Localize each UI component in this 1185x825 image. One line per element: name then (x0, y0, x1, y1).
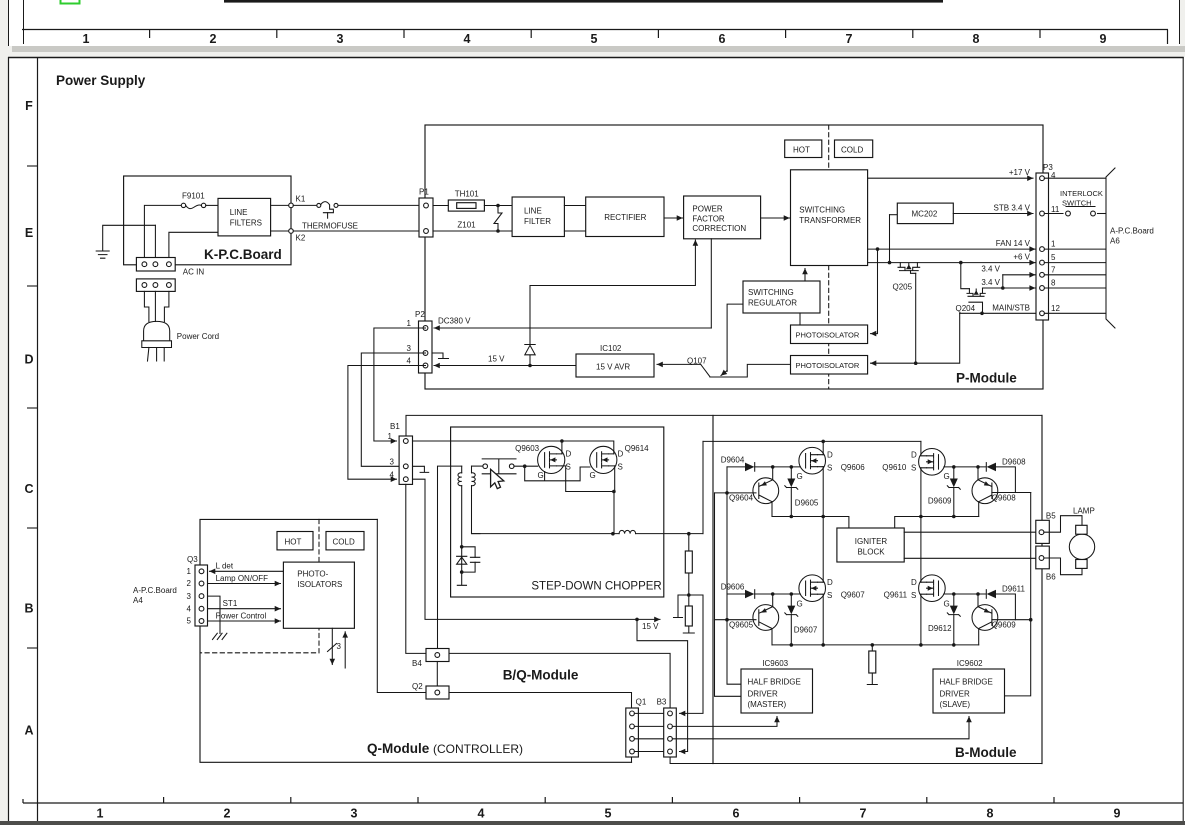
svg-text:Q9604: Q9604 (729, 494, 754, 503)
svg-text:C: C (24, 482, 33, 496)
svg-text:D: D (566, 450, 572, 459)
wire regulator to transformer (arrow up) (804, 269, 806, 282)
svg-text:DRIVER: DRIVER (748, 690, 778, 699)
Q-Module outline (200, 519, 632, 762)
connector AC IN (136, 258, 204, 277)
MOSFET Q9614 (590, 444, 650, 480)
chopper output inductor (472, 530, 704, 535)
svg-text:3: 3 (407, 344, 412, 353)
wire transformer secondary top to switch (472, 465, 483, 467)
svg-text:8: 8 (1051, 279, 1056, 288)
wire Q9603 drain to rail (560, 439, 564, 454)
wire B5 to lamp (1044, 516, 1082, 533)
svg-text:A-P.C.Board: A-P.C.Board (133, 586, 177, 595)
block PHOTOISOLATOR 2 (791, 356, 868, 375)
block LINE FILTER (512, 197, 564, 237)
wire lower-left node rail (772, 643, 979, 647)
svg-text:F: F (25, 99, 33, 113)
svg-text:D: D (827, 451, 833, 460)
block IC9603 HALF BRIDGE DRIVER (MASTER) (741, 659, 813, 713)
svg-text:9: 9 (1100, 32, 1107, 46)
svg-text:1: 1 (97, 807, 104, 821)
wire H-bridge top rail (703, 440, 921, 444)
wire Q9614 source to common riser (611, 466, 616, 536)
svg-text:1: 1 (1051, 240, 1056, 249)
svg-text:Power Supply: Power Supply (56, 73, 146, 88)
svg-text:+6 V: +6 V (1013, 252, 1030, 261)
svg-text:D9605: D9605 (795, 499, 819, 508)
wire ST1 (Q3 pin4) (208, 599, 281, 609)
row letter ticks (27, 166, 38, 648)
svg-text:Q9610: Q9610 (882, 463, 907, 472)
svg-text:IC9603: IC9603 (762, 659, 788, 668)
svg-text:G: G (797, 600, 803, 609)
wire FAN 14V output (868, 239, 1036, 251)
svg-text:8: 8 (987, 807, 994, 821)
bus arrows below photo-isolators (328, 628, 346, 668)
bottom ruler (23, 802, 1183, 804)
connector P2 (407, 310, 432, 373)
box COLD (P-module) (835, 140, 873, 158)
dashed hot/cold separator (Q-module) (201, 519, 319, 652)
svg-text:2: 2 (210, 32, 217, 46)
svg-text:Power Cord: Power Cord (177, 332, 219, 341)
zener D9607 (785, 594, 818, 645)
wire P2 pin4 riser to B1 pin4 (348, 366, 426, 480)
mouse cursor (491, 469, 504, 488)
svg-text:TRANSFORMER: TRANSFORMER (799, 216, 861, 225)
pin numbers P3 (1051, 171, 1060, 313)
svg-text:Q9606: Q9606 (841, 463, 866, 472)
chassis stub on P2 pin3 (432, 353, 449, 359)
svg-text:D9611: D9611 (1002, 585, 1026, 594)
svg-text:L det: L det (216, 562, 234, 571)
svg-text:FILTER: FILTER (524, 217, 551, 226)
wires Q1 to B3 links (634, 713, 667, 751)
svg-text:15 V AVR: 15 V AVR (596, 363, 630, 372)
svg-text:12: 12 (1051, 304, 1060, 313)
svg-text:S: S (566, 463, 571, 472)
previous page strip (8, 0, 1185, 52)
svg-text:4: 4 (187, 604, 192, 613)
svg-text:1: 1 (388, 432, 393, 441)
svg-text:SWITCH: SWITCH (1062, 199, 1092, 208)
connector Q1 (626, 698, 647, 758)
svg-text:Q2: Q2 (412, 682, 423, 691)
wire 15V arrow (Q-module) (635, 618, 660, 631)
svg-text:B/Q-Module: B/Q-Module (503, 668, 579, 683)
svg-text:11: 11 (1051, 205, 1060, 214)
svg-text:(MASTER): (MASTER) (748, 700, 787, 709)
wires P3 pins to A-board bracket (1044, 178, 1105, 313)
svg-text:SWITCHING: SWITCHING (799, 206, 845, 215)
svg-text:7: 7 (860, 807, 867, 821)
wire upper-right node rail to igniter (895, 515, 979, 528)
wire B3 pin2 to master driver (672, 717, 777, 727)
varistor Z101 (457, 204, 502, 233)
connector B1 (388, 422, 413, 484)
svg-text:D9609: D9609 (928, 497, 952, 506)
svg-text:B4: B4 (412, 659, 422, 668)
svg-text:Q9609: Q9609 (992, 621, 1017, 630)
svg-text:A4: A4 (133, 596, 143, 605)
wire B6 to lamp (1044, 558, 1082, 575)
connector P1 (419, 188, 433, 238)
wire B1 pin3 stub termination (413, 466, 429, 472)
svg-text:RECTIFIER: RECTIFIER (604, 213, 646, 222)
wire Q9603 source to common (562, 466, 614, 492)
svg-text:Q-Module (CONTROLLER): Q-Module (CONTROLLER) (367, 741, 523, 756)
block PHOTOISOLATOR 1 (791, 325, 868, 344)
transistor Q107 (687, 304, 791, 377)
wire rail corner into Q9614 drain (562, 441, 614, 454)
zener D9609 (928, 467, 960, 517)
wire K2 to P1 (293, 230, 419, 232)
svg-text:7: 7 (1051, 265, 1056, 274)
wire FAN dot down to photoisolator 1 (871, 249, 878, 334)
transistor Q9608 (mirrored) (972, 467, 1016, 517)
svg-text:B3: B3 (657, 698, 667, 707)
wire B1 pin1 to chopper FET rail (413, 440, 562, 442)
block IGNITER BLOCK (837, 528, 904, 562)
box COLD (Q-module) (326, 532, 364, 550)
dashed hot/cold separator (P-module) (828, 125, 830, 389)
interlock switch (1060, 189, 1103, 216)
svg-text:STEP-DOWN CHOPPER: STEP-DOWN CHOPPER (531, 581, 661, 593)
wire transformer primary top to B4 riser (438, 466, 462, 648)
wire +6V output (868, 215, 1036, 265)
wire STB 3.4V output (953, 204, 1033, 214)
svg-text:D: D (618, 450, 624, 459)
svg-text:HOT: HOT (285, 537, 302, 546)
svg-text:S: S (911, 591, 916, 600)
svg-text:D9606: D9606 (721, 583, 745, 592)
block MC202 (897, 203, 953, 224)
svg-text:1: 1 (83, 32, 90, 46)
wires LINE FILTER to RECTIFIER (564, 206, 585, 232)
svg-text:HOT: HOT (793, 146, 810, 155)
svg-text:3: 3 (351, 807, 358, 821)
svg-text:5: 5 (187, 617, 192, 626)
svg-text:Power Control: Power Control (216, 612, 267, 621)
svg-text:B6: B6 (1046, 573, 1056, 582)
connector B6 (1036, 546, 1056, 581)
svg-text:D9612: D9612 (928, 624, 952, 633)
svg-text:G: G (944, 600, 950, 609)
svg-text:5: 5 (1051, 253, 1056, 262)
connector power cord plug header (136, 279, 175, 292)
wire RECTIFIER to PFC (arrow) (664, 217, 683, 219)
wire PFC feedback from 15V zener (530, 240, 695, 286)
svg-text:D: D (911, 578, 917, 587)
wire Q9607 source riser (821, 594, 825, 647)
svg-text:Q107: Q107 (687, 357, 707, 366)
wire LINE FILTERS to K2 (271, 230, 289, 232)
connector P3 (1036, 163, 1053, 320)
connector Q3 (187, 555, 208, 626)
svg-text:K1: K1 (296, 195, 306, 204)
wire inductor rail to B-module riser (702, 441, 704, 533)
svg-text:4: 4 (478, 807, 485, 821)
svg-text:B-Module: B-Module (955, 745, 1017, 760)
svg-text:PHOTOISOLATOR: PHOTOISOLATOR (796, 361, 860, 370)
svg-text:G: G (797, 472, 803, 481)
wire Q9610 gate net (944, 465, 986, 469)
thermofuse (302, 202, 358, 231)
svg-text:D: D (827, 578, 833, 587)
MOSFET Q9611 (mirrored) (884, 575, 950, 609)
wire DC380V rail (434, 317, 711, 329)
wire B1-bottom to B4 edge (406, 484, 426, 653)
svg-text:Q9614: Q9614 (625, 444, 650, 453)
wire Power Control (Q3 pin5) (208, 612, 281, 622)
svg-text:Q9608: Q9608 (992, 494, 1017, 503)
wire AC pin2 riser (154, 225, 156, 258)
svg-text:4: 4 (464, 32, 471, 46)
svg-text:IGNITER: IGNITER (855, 537, 888, 546)
svg-text:3: 3 (390, 458, 395, 467)
svg-text:3.4 V: 3.4 V (981, 265, 1000, 274)
connector Q2 (412, 682, 449, 699)
svg-text:G: G (944, 472, 950, 481)
svg-text:ISOLATORS: ISOLATORS (297, 580, 342, 589)
svg-text:5: 5 (605, 807, 612, 821)
wire gate-net descender (left) (725, 467, 741, 684)
svg-text:8: 8 (973, 32, 980, 46)
zener D9612 (928, 594, 960, 645)
B/Q-module edge to B3 (449, 653, 670, 708)
svg-text:5: 5 (591, 32, 598, 46)
wire 3.4V pin7 output (981, 265, 1035, 288)
svg-text:P2: P2 (415, 310, 425, 319)
power cord plug (142, 291, 219, 361)
svg-text:4: 4 (407, 357, 412, 366)
svg-text:A: A (24, 724, 33, 738)
svg-text:Q9603: Q9603 (515, 444, 540, 453)
svg-text:D: D (24, 353, 33, 367)
svg-text:6: 6 (719, 32, 726, 46)
svg-text:IC102: IC102 (600, 344, 622, 353)
wire Q107 base to IC102 (arrow) (657, 363, 701, 365)
transistor Q205 (inline FET under +6V rail) (893, 263, 920, 292)
svg-text:PHOTOISOLATOR: PHOTOISOLATOR (796, 330, 860, 339)
wire Q9611 source riser (920, 594, 922, 645)
svg-text:FACTOR: FACTOR (692, 214, 725, 223)
svg-text:LINE: LINE (230, 208, 248, 217)
block LINE FILTERS (218, 198, 271, 236)
transistor Q9604 (715, 467, 779, 517)
MOSFET Q9610 (mirrored) (882, 449, 949, 482)
block IC9602 HALF BRIDGE DRIVER (SLAVE) (933, 659, 1005, 713)
wire B-side DC380 top rail (406, 415, 1042, 436)
block SWITCHING TRANSFORMER (791, 170, 868, 266)
svg-text:Lamp ON/OFF: Lamp ON/OFF (216, 574, 269, 583)
wire Q2 to Q1 top (449, 693, 632, 709)
svg-text:A-P.C.Board: A-P.C.Board (1110, 227, 1154, 236)
wire Q9611 drain riser to node (920, 517, 922, 583)
svg-text:2: 2 (187, 579, 192, 588)
wire B1 pin4 to 15V distribution (413, 479, 638, 619)
svg-text:AC IN: AC IN (183, 268, 205, 277)
MOSFET Q9606 (797, 447, 866, 481)
snubber diode and capacitor (457, 545, 480, 585)
svg-text:3: 3 (337, 642, 342, 651)
svg-text:G: G (590, 471, 596, 480)
transistor Q204 (956, 263, 986, 314)
wire K1 to thermofuse (293, 204, 317, 206)
svg-text:S: S (618, 463, 623, 472)
zener diode (15V sense) (525, 286, 535, 366)
svg-text:9: 9 (1114, 807, 1121, 821)
sense resistor chain (674, 534, 704, 714)
svg-text:MAIN/STB: MAIN/STB (992, 303, 1030, 312)
MOSFET Q9607 (797, 575, 866, 609)
svg-text:DC380 V: DC380 V (438, 317, 471, 326)
wire Q9610 source riser (919, 468, 923, 519)
MOSFET Q9603 (515, 444, 571, 480)
wire Q9611 gate net (944, 592, 986, 596)
svg-text:A6: A6 (1110, 237, 1120, 246)
wire Q3 pin3 to chassis ground (208, 596, 227, 639)
box HOT (P-module) (785, 140, 822, 158)
zener D9605 (785, 467, 819, 517)
svg-text:REGULATOR: REGULATOR (748, 298, 797, 307)
svg-text:3.4 V: 3.4 V (981, 278, 1000, 287)
svg-text:3: 3 (187, 592, 192, 601)
svg-text:DRIVER: DRIVER (940, 690, 970, 699)
wire regulator to photoisolator 1 (799, 313, 801, 325)
P-Module outline (425, 125, 1043, 389)
wire MAIN/STB down to photoisolator 2 (871, 313, 960, 363)
terminal K2 (289, 229, 306, 243)
svg-text:S: S (911, 464, 916, 473)
svg-text:Q9607: Q9607 (841, 591, 866, 600)
wire thermofuse to P1 (338, 204, 419, 206)
wire Q9609 base to descender (992, 619, 1031, 621)
diode D9608 (986, 458, 1026, 493)
wire Q9606 source riser (821, 467, 825, 519)
connector B5 (1036, 512, 1056, 544)
wire B3 bottom to B-module bottom (670, 757, 1042, 764)
wire B3 pin3 to slave driver (672, 717, 969, 739)
svg-text:BLOCK: BLOCK (857, 548, 885, 557)
block SWITCHING REGULATOR (743, 281, 820, 313)
svg-text:TH101: TH101 (455, 190, 480, 199)
svg-text:B1: B1 (390, 422, 400, 431)
svg-text:1: 1 (407, 319, 412, 328)
svg-text:4: 4 (390, 471, 395, 480)
svg-text:Q3: Q3 (187, 555, 198, 564)
chopper transformer windings (458, 466, 480, 546)
svg-text:6: 6 (733, 807, 740, 821)
svg-text:D9607: D9607 (794, 626, 818, 635)
wire Q9607 drain riser to node (822, 517, 824, 583)
svg-text:HALF BRIDGE: HALF BRIDGE (940, 678, 993, 687)
svg-text:P-Module: P-Module (956, 371, 1017, 386)
svg-text:E: E (25, 226, 33, 240)
svg-text:+17 V: +17 V (1009, 168, 1031, 177)
connector B4 (412, 649, 449, 669)
svg-text:COLD: COLD (841, 146, 863, 155)
transistor Q9605 (715, 594, 779, 645)
svg-text:Q9605: Q9605 (729, 621, 754, 630)
wire P1 to TH101 (433, 205, 448, 207)
wire TH101 to LINE FILTER with Z101 taps (433, 206, 512, 232)
diode D9611 (986, 585, 1025, 620)
svg-text:MC202: MC202 (912, 210, 938, 219)
svg-text:Q205: Q205 (893, 283, 913, 292)
wire 3.4V pin8 output (981, 278, 1035, 290)
thermistor TH101 (448, 190, 484, 212)
fuse F9101 (181, 192, 206, 209)
svg-text:LINE: LINE (524, 207, 542, 216)
K-P.C.Board outline (124, 176, 291, 265)
A-P.C.Board A6 bracket (1106, 168, 1154, 328)
terminal K1 (289, 195, 306, 208)
wire AC pin3 riser to LINE FILTERS (169, 232, 218, 258)
lower half-bridge: diode D9606 (721, 583, 801, 599)
wire PFC output down to DC380V rail (710, 239, 712, 328)
svg-text:SWITCHING: SWITCHING (748, 288, 794, 297)
block IC102 15V AVR (576, 344, 654, 377)
wire +17V output (868, 168, 1033, 178)
connector B3 (657, 698, 677, 758)
svg-text:FAN 14 V: FAN 14 V (996, 239, 1031, 248)
svg-text:HALF BRIDGE: HALF BRIDGE (748, 678, 801, 687)
wire AC pin1 to fuse (144, 205, 181, 258)
ground (K board earth) (96, 225, 155, 258)
svg-text:COLD: COLD (333, 537, 355, 546)
svg-text:Q1: Q1 (636, 698, 647, 707)
B-Module outline (713, 415, 1042, 763)
svg-text:Z101: Z101 (457, 221, 476, 230)
wire fuse to LINE FILTERS (206, 204, 218, 206)
chopper switch (482, 459, 516, 474)
wire switch to FET gates (514, 466, 590, 481)
svg-text:CORRECTION: CORRECTION (692, 224, 746, 233)
wire LINE FILTERS to K1 (271, 204, 289, 206)
wire Q205 gate riser (915, 273, 917, 363)
wire MAIN/STB output (960, 303, 1035, 315)
svg-text:D9608: D9608 (1002, 458, 1026, 467)
svg-text:2: 2 (224, 807, 231, 821)
svg-text:K2: K2 (296, 234, 306, 243)
svg-text:15 V: 15 V (642, 622, 659, 631)
svg-text:(SLAVE): (SLAVE) (940, 700, 971, 709)
wire Q2 to riser to module top (377, 519, 426, 692)
svg-text:S: S (827, 591, 832, 600)
svg-text:G: G (538, 471, 544, 480)
wire upper-left node rail to igniter (772, 515, 849, 528)
wire igniter to B5 (904, 531, 1036, 533)
svg-text:LAMP: LAMP (1073, 507, 1095, 516)
box HOT (Q-module) (277, 532, 313, 550)
svg-text:IC9602: IC9602 (957, 659, 983, 668)
block PHOTO-ISOLATORS (283, 562, 354, 628)
wire Q1 bottom to module bottom (631, 757, 633, 762)
svg-text:STB 3.4 V: STB 3.4 V (994, 204, 1031, 213)
svg-text:FILTERS: FILTERS (230, 219, 262, 228)
block POWER FACTOR CORRECTION (684, 196, 761, 239)
diode D9604 (721, 456, 801, 472)
transistor Q9609 (mirrored) (972, 594, 1016, 645)
wire P2 pin1 riser to B1 pin1 (374, 328, 426, 441)
svg-text:PHOTO-: PHOTO- (297, 570, 328, 579)
lamp (1069, 507, 1094, 569)
svg-text:Q9611: Q9611 (884, 591, 908, 600)
svg-text:F9101: F9101 (182, 192, 205, 201)
wire L det (Q3 pin1) (210, 562, 284, 572)
